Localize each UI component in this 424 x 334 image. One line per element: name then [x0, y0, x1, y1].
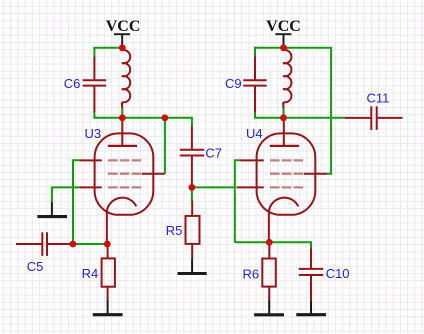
svg-text:R4: R4 [82, 266, 99, 281]
svg-text:C9: C9 [225, 76, 242, 91]
junction dot cathode R4 node [104, 241, 111, 248]
svg-text:VCC: VCC [106, 18, 141, 35]
wire: VCC1 junction to C6 top [94, 48, 122, 59]
svg-text:U3: U3 [85, 126, 102, 141]
ground (C10) [296, 300, 326, 314]
junction dot VCC1 [119, 44, 126, 51]
ground (R4) [93, 299, 123, 315]
resistor R6 [262, 242, 276, 300]
junction dot C7 bottom [189, 184, 196, 191]
wire: VCC2 junction right loop to U4 screen [284, 48, 332, 174]
wire: anode rail to C7 top [122, 118, 192, 128]
resistor R5 [186, 201, 200, 259]
junction dot cathode R6 node [266, 239, 273, 246]
svg-text:U4: U4 [246, 126, 263, 141]
svg-text:C11: C11 [367, 91, 390, 106]
wire: C6 bottom to anode rail [94, 111, 122, 118]
grid dashes U4 [270, 160, 303, 187]
power symbol VCC1 [114, 34, 130, 45]
wire: suppressor U3 to ground [52, 187, 81, 202]
capacitor C7 [180, 127, 204, 185]
junction dot screen tap U3 [162, 114, 169, 121]
wire: cathode row C5 junction to R4 junction [73, 243, 107, 245]
wire: L1 bottom to anode junction [121, 108, 123, 118]
vacuum tube U4 [237, 119, 328, 242]
svg-text:C6: C6 [64, 76, 81, 91]
svg-text:C7: C7 [205, 146, 222, 161]
svg-text:C5: C5 [27, 259, 44, 274]
junction dot anode rail U4 [280, 114, 287, 121]
wire: C7 bottom junction to U4 grid net [192, 186, 235, 188]
junction dot anode rail U3 [119, 114, 126, 121]
inductor L1 [122, 50, 130, 109]
vacuum tube U3 [80, 119, 165, 244]
wire: L2 bottom to anode junction 2 [283, 108, 285, 118]
inductor L2 [283, 50, 291, 109]
svg-text:VCC: VCC [266, 18, 301, 35]
power symbol VCC2 [275, 34, 291, 45]
ground (suppressor U3) [37, 202, 67, 217]
svg-text:R6: R6 [243, 266, 260, 281]
wire: anode rail 2 to C11 [284, 117, 347, 119]
capacitor C9 [243, 57, 266, 113]
wire: VCC2 junction to C9 top [255, 48, 284, 59]
capacitor C11 [345, 106, 403, 130]
capacitor C5 [16, 232, 71, 256]
wire: C7 bottom junction down to R5 [191, 187, 193, 201]
wire: screen grid U3 to rail [164, 118, 166, 174]
ground (R6) [254, 300, 284, 315]
svg-text:C10: C10 [326, 266, 350, 281]
junction dot VCC2 [280, 44, 287, 51]
resistor R4 [102, 244, 115, 300]
wire: U4 cathode row to C10 [235, 242, 311, 250]
grid dashes U3 [108, 160, 141, 187]
junction dot C5 grid node [70, 241, 77, 248]
wire: C9 bottom to anode rail 2 [255, 111, 284, 118]
wire: control grid U3 down to cathode net [73, 160, 81, 244]
capacitor C6 [83, 57, 106, 113]
ground (R5) [178, 258, 207, 273]
svg-text:R5: R5 [166, 223, 183, 238]
capacitor C10 [299, 249, 324, 301]
wire: U4 grid1 vertical tie [235, 160, 241, 242]
